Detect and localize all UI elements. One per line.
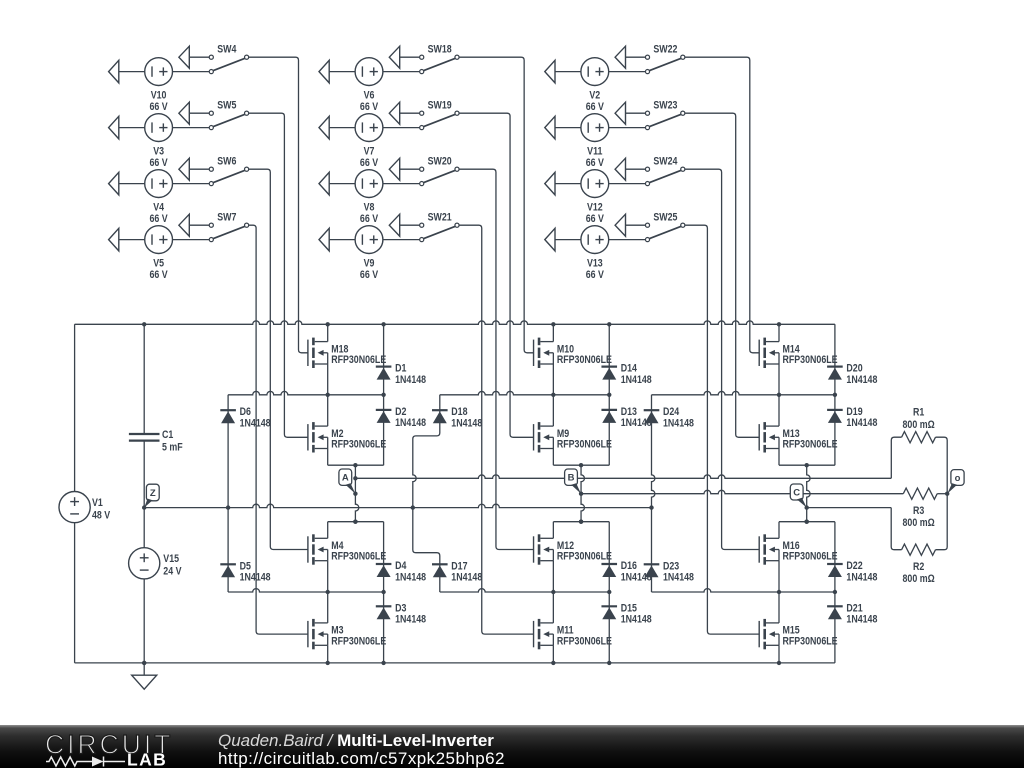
svg-text:SW19: SW19 (428, 100, 453, 112)
svg-text:48 V: 48 V (92, 510, 111, 522)
svg-text:D14: D14 (621, 363, 638, 375)
svg-text:R3: R3 (913, 505, 925, 517)
svg-text:V5: V5 (153, 258, 164, 270)
svg-text:RFP30N06LE: RFP30N06LE (557, 439, 612, 451)
svg-text:RFP30N06LE: RFP30N06LE (783, 354, 838, 366)
svg-text:5 mF: 5 mF (162, 442, 183, 454)
svg-text:RFP30N06LE: RFP30N06LE (331, 551, 386, 563)
svg-text:SW4: SW4 (217, 44, 237, 56)
svg-text:V8: V8 (364, 202, 375, 214)
svg-text:D20: D20 (846, 363, 863, 375)
svg-text:R2: R2 (913, 561, 925, 573)
svg-text:1N4148: 1N4148 (451, 418, 482, 430)
svg-text:66 V: 66 V (586, 269, 605, 281)
svg-text:SW6: SW6 (217, 156, 237, 168)
svg-text:1N4148: 1N4148 (621, 614, 652, 626)
svg-text:66 V: 66 V (586, 213, 605, 225)
svg-text:V12: V12 (587, 202, 603, 214)
svg-text:RFP30N06LE: RFP30N06LE (557, 551, 612, 563)
svg-text:SW5: SW5 (217, 100, 237, 112)
svg-text:RFP30N06LE: RFP30N06LE (331, 354, 386, 366)
svg-text:D1: D1 (395, 363, 407, 375)
svg-text:1N4148: 1N4148 (240, 572, 271, 584)
svg-text:1N4148: 1N4148 (395, 374, 426, 386)
svg-text:R1: R1 (913, 407, 925, 419)
svg-text:V1: V1 (92, 497, 103, 509)
svg-text:D23: D23 (663, 561, 680, 573)
svg-text:V9: V9 (364, 258, 375, 270)
svg-text:Z: Z (150, 488, 156, 499)
svg-text:66 V: 66 V (360, 101, 379, 113)
svg-text:1N4148: 1N4148 (846, 572, 877, 584)
svg-text:D19: D19 (846, 406, 863, 418)
svg-text:66 V: 66 V (360, 213, 379, 225)
svg-text:66 V: 66 V (586, 157, 605, 169)
svg-text:800 mΩ: 800 mΩ (903, 419, 935, 431)
svg-text:66 V: 66 V (149, 269, 168, 281)
svg-text:800 mΩ: 800 mΩ (903, 573, 935, 585)
svg-text:1N4148: 1N4148 (846, 614, 877, 626)
svg-text:RFP30N06LE: RFP30N06LE (331, 439, 386, 451)
svg-text:66 V: 66 V (586, 101, 605, 113)
svg-text:D18: D18 (451, 406, 468, 418)
svg-text:A: A (342, 473, 349, 484)
svg-text:66 V: 66 V (149, 213, 168, 225)
svg-text:SW18: SW18 (428, 44, 453, 56)
svg-text:SW24: SW24 (653, 156, 678, 168)
svg-text:RFP30N06LE: RFP30N06LE (783, 439, 838, 451)
svg-text:D24: D24 (663, 406, 680, 418)
svg-text:C: C (793, 487, 800, 498)
svg-text:RFP30N06LE: RFP30N06LE (331, 636, 386, 648)
svg-text:SW21: SW21 (428, 212, 453, 224)
svg-text:D6: D6 (240, 406, 252, 418)
svg-text:D2: D2 (395, 406, 407, 418)
svg-text:D22: D22 (846, 560, 863, 572)
svg-text:C1: C1 (162, 429, 174, 441)
svg-text:66 V: 66 V (149, 157, 168, 169)
svg-text:V3: V3 (153, 146, 164, 158)
svg-text:D5: D5 (240, 561, 252, 573)
svg-text:1N4148: 1N4148 (663, 572, 694, 584)
svg-text:1N4148: 1N4148 (395, 572, 426, 584)
svg-text:RFP30N06LE: RFP30N06LE (783, 551, 838, 563)
svg-text:66 V: 66 V (360, 157, 379, 169)
svg-text:V2: V2 (589, 90, 600, 102)
svg-text:1N4148: 1N4148 (663, 418, 694, 430)
svg-text:B: B (568, 473, 575, 484)
svg-text:1N4148: 1N4148 (395, 417, 426, 429)
svg-text:SW23: SW23 (653, 100, 678, 112)
svg-text:SW20: SW20 (428, 156, 453, 168)
svg-text:D4: D4 (395, 560, 407, 572)
svg-text:LAB: LAB (127, 749, 167, 769)
svg-text:V7: V7 (364, 146, 375, 158)
svg-text:SW22: SW22 (653, 44, 678, 56)
svg-text:D3: D3 (395, 603, 407, 615)
svg-text:V10: V10 (151, 90, 167, 102)
svg-text:D13: D13 (621, 406, 638, 418)
svg-text:SW7: SW7 (217, 212, 237, 224)
svg-text:RFP30N06LE: RFP30N06LE (557, 354, 612, 366)
svg-text:1N4148: 1N4148 (395, 614, 426, 626)
svg-text:D21: D21 (846, 603, 863, 615)
svg-text:V11: V11 (587, 146, 603, 158)
svg-text:D15: D15 (621, 603, 638, 615)
svg-text:66 V: 66 V (149, 101, 168, 113)
svg-text:D17: D17 (451, 561, 468, 573)
svg-text:1N4148: 1N4148 (846, 417, 877, 429)
svg-text:1N4148: 1N4148 (621, 374, 652, 386)
svg-text:V4: V4 (153, 202, 164, 214)
svg-text:1N4148: 1N4148 (846, 374, 877, 386)
svg-text:RFP30N06LE: RFP30N06LE (557, 636, 612, 648)
svg-text:1N4148: 1N4148 (451, 572, 482, 584)
svg-text:1N4148: 1N4148 (240, 418, 271, 430)
svg-text:800 mΩ: 800 mΩ (903, 517, 935, 529)
svg-text:24 V: 24 V (163, 566, 182, 578)
svg-text:V6: V6 (364, 90, 375, 102)
svg-text:RFP30N06LE: RFP30N06LE (783, 636, 838, 648)
svg-text:66 V: 66 V (360, 269, 379, 281)
svg-text:o: o (955, 473, 961, 484)
svg-text:V15: V15 (163, 553, 179, 565)
svg-text:V13: V13 (587, 258, 603, 270)
svg-text:SW25: SW25 (653, 212, 678, 224)
svg-text:D16: D16 (621, 560, 638, 572)
